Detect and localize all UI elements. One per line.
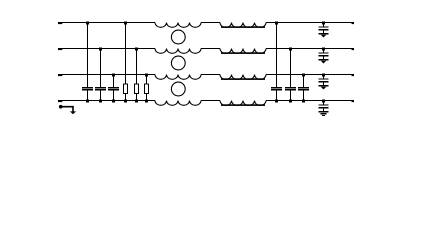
X-capacitor C6 (L3 to N) bbox=[303, 75, 305, 88]
choke winding N (common-mode choke L5 winding 4) bbox=[155, 101, 201, 106]
Y-capacitor C7 (L1 to earth) with ground bbox=[323, 23, 325, 27]
node rail L2 x=136.5 bbox=[135, 48, 138, 51]
node rail L3 x=146.5 bbox=[145, 74, 148, 77]
ground PE (triangle) bbox=[70, 111, 76, 114]
choke winding L2 (common-mode choke L5 winding 2) bbox=[155, 49, 201, 54]
node rail L1 x=323.5 bbox=[322, 22, 325, 25]
node rail L3 x=113.5 bbox=[112, 74, 115, 77]
X-capacitor C1 (L1 to N) bbox=[87, 23, 89, 88]
wire rail L1 right segment bbox=[266, 22, 352, 24]
resistor R2 (L2 to N) bbox=[136, 49, 138, 85]
wire rail L3 between chokes bbox=[201, 74, 220, 76]
terminal L1 (left, line side) bbox=[58, 22, 62, 24]
Y-capacitor C9 (L3 to earth) with ground bbox=[323, 75, 325, 79]
node rail L3 x=303.5 bbox=[302, 74, 305, 77]
node rail N x=303.5 bbox=[302, 100, 305, 103]
X-capacitor C2 (L2 to N) bbox=[100, 49, 102, 88]
terminal L2 (left, line side) bbox=[58, 48, 62, 50]
inductor L8 (L3 line, with core bar) bbox=[220, 75, 266, 80]
terminal L2' (right, load side) bbox=[352, 48, 355, 50]
Y-capacitor C8 (L2 to earth) with ground bbox=[323, 49, 325, 53]
node rail L1 x=276.5 bbox=[275, 22, 278, 25]
choke core circle 1 bbox=[171, 30, 185, 44]
node rail N x=125.5 bbox=[124, 100, 127, 103]
X-capacitor C5 (L2 to N) bbox=[290, 49, 292, 88]
inductor L6 (L1 line, with core bar) bbox=[220, 23, 266, 28]
terminal L1' (right, load side) bbox=[352, 22, 355, 24]
node rail L2 x=100.5 bbox=[99, 48, 102, 51]
wire rail L2 right segment bbox=[266, 48, 352, 50]
resistor R3 (L3 to N) bbox=[146, 75, 148, 85]
node rail N x=290.5 bbox=[289, 100, 292, 103]
node rail L1 x=125.5 bbox=[124, 22, 127, 25]
node rail L1 x=87.5 bbox=[86, 22, 89, 25]
wire rail N right segment bbox=[266, 100, 352, 102]
node rail N x=276.5 bbox=[275, 100, 278, 103]
wire rail L3 right segment bbox=[266, 74, 352, 76]
choke winding L3 (common-mode choke L5 winding 3) bbox=[155, 75, 201, 80]
wire rail L1 left segment bbox=[62, 22, 155, 24]
node rail N x=136.5 bbox=[135, 100, 138, 103]
X-capacitor C3 (L3 to N) bbox=[113, 75, 115, 88]
node rail N x=146.5 bbox=[145, 100, 148, 103]
choke core circle 2 bbox=[171, 56, 185, 70]
terminal L3' (right, load side) bbox=[352, 74, 355, 76]
inductor L7 (L2 line, with core bar) bbox=[220, 49, 266, 54]
wire PE to ground bbox=[62, 107, 73, 112]
wire rail L2 between chokes bbox=[201, 48, 220, 50]
node rail N x=87.5 bbox=[86, 100, 89, 103]
node rail L2 x=323.5 bbox=[322, 48, 325, 51]
terminal PE (protective earth input) bbox=[59, 105, 63, 109]
choke core circle 3 bbox=[171, 82, 185, 96]
node rail N x=100.5 bbox=[99, 100, 102, 103]
Y-capacitor C10 (N to earth) with earth ground bbox=[323, 101, 325, 105]
node rail N x=113.5 bbox=[112, 100, 115, 103]
wire rail N between chokes bbox=[201, 100, 220, 102]
resistor R1 (L1 to N) bbox=[125, 23, 127, 85]
node rail N x=323.5 bbox=[322, 100, 325, 103]
terminal L3 (left, line side) bbox=[58, 74, 62, 76]
terminal N (left, line side) bbox=[58, 100, 62, 102]
X-capacitor C4 (L1 to N) bbox=[276, 23, 278, 88]
wire rail N left segment bbox=[62, 100, 155, 102]
terminal N' (right, load side) bbox=[352, 100, 355, 102]
wire rail L2 left segment bbox=[62, 48, 155, 50]
wire rail L1 between chokes bbox=[201, 22, 220, 24]
choke winding L1 (common-mode choke L5 winding 1) bbox=[155, 23, 201, 28]
node rail L3 x=323.5 bbox=[322, 74, 325, 77]
wire rail L3 left segment bbox=[62, 74, 155, 76]
inductor L9 (N line, with core bar) bbox=[220, 101, 266, 106]
node rail L2 x=290.5 bbox=[289, 48, 292, 51]
